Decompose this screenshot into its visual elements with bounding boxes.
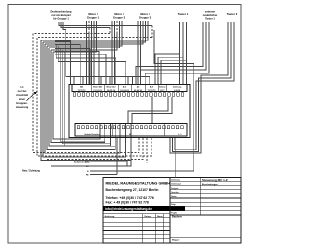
svg-text:Zeichnung: Zeichnung bbox=[171, 180, 180, 182]
svg-text:Taster 2: Taster 2 bbox=[227, 12, 238, 16]
wire motor1 b bbox=[88, 21, 90, 34]
wire mid col a bbox=[56, 44, 116, 85]
wire stair feed 2 bbox=[55, 45, 80, 85]
dashed wire option outer bbox=[33, 34, 139, 153]
svg-text:AB: AB bbox=[80, 85, 83, 88]
svg-text:info@riedel-raumgestaltung.de: info@riedel-raumgestaltung.de bbox=[105, 207, 152, 211]
wire netz hell bbox=[90, 161, 127, 166]
wire group bus 3 bbox=[45, 44, 120, 153]
wire link example 2 bbox=[61, 22, 110, 28]
svg-text:Gezeichn.: Gezeichn. bbox=[171, 192, 180, 194]
svg-text:L1: L1 bbox=[20, 85, 24, 89]
bottom strip dividers bbox=[112, 124, 114, 137]
wire motor3 d bbox=[43, 21, 146, 42]
terminal strip bottom box bbox=[75, 124, 187, 137]
svg-text:externer: externer bbox=[205, 10, 215, 14]
svg-text:zusätzlicher: zusätzlicher bbox=[203, 13, 218, 17]
svg-text:C1 C2 C3: C1 C2 C3 bbox=[93, 90, 101, 92]
svg-text:Buchenbergweg 27, 12107 Berli: Buchenbergweg 27, 12107 Berlin bbox=[106, 188, 159, 192]
wire group bus 5 bbox=[49, 48, 110, 146]
svg-text:Zuleitung: Zuleitung bbox=[173, 85, 182, 88]
wire motor1 c bbox=[91, 21, 93, 85]
wire taster2 b bbox=[173, 22, 232, 151]
wire internal 2 bbox=[128, 97, 168, 124]
wire motor2 e bbox=[47, 21, 122, 46]
svg-text:O1 O2 O3: O1 O2 O3 bbox=[120, 90, 129, 92]
note arrow bbox=[26, 92, 37, 101]
svg-text:M: M bbox=[129, 134, 131, 136]
wire motor3 c bbox=[45, 21, 143, 44]
svg-text:Festgest.: Festgest. bbox=[171, 187, 179, 190]
svg-text:hell: hell bbox=[85, 161, 89, 163]
controller block U1 bbox=[69, 85, 190, 138]
svg-text:Schalt-Verteiler: Schalt-Verteiler bbox=[84, 133, 99, 136]
dashed wire below block a bbox=[138, 138, 140, 153]
dashed wire option stub bbox=[109, 28, 111, 34]
wire mid col b bbox=[58, 46, 125, 84]
title email bar bbox=[103, 206, 185, 211]
wire taster2 c bbox=[175, 22, 234, 150]
revision col end bbox=[163, 214, 165, 243]
data table label col bbox=[199, 178, 201, 216]
svg-text:einer: einer bbox=[19, 97, 25, 101]
wire motor1 d bbox=[93, 21, 95, 85]
terminal squares top row bbox=[73, 93, 76, 96]
svg-text:Änderung: Änderung bbox=[105, 215, 116, 218]
svg-text:Anschluß: Anschluß bbox=[16, 93, 28, 97]
data table mappe row bbox=[170, 236, 241, 238]
wire group bus 4 bbox=[47, 46, 115, 150]
svg-text:Steuerung MC 1-Z: Steuerung MC 1-Z bbox=[202, 178, 228, 182]
wire ext-taster b bbox=[141, 22, 206, 85]
wire mid col e bbox=[64, 52, 115, 146]
drawing border frame bbox=[8, 5, 241, 244]
svg-text:Gruppe 1: Gruppe 1 bbox=[87, 16, 100, 20]
wire group bus 7 bbox=[53, 52, 100, 139]
wires short feed teeth bbox=[73, 76, 75, 84]
svg-text:T1 T2 T3: T1 T2 T3 bbox=[78, 90, 86, 92]
wire stair feed 4 bbox=[55, 52, 99, 85]
svg-text:Blatt: Blatt bbox=[171, 207, 175, 210]
svg-text:nur als Beispiel: nur als Beispiel bbox=[51, 13, 70, 17]
wire mid col 0 bbox=[55, 54, 106, 84]
svg-text:Schutz.: Schutz. bbox=[159, 85, 166, 88]
svg-text:PE: PE bbox=[86, 175, 89, 177]
wire link example 3 bbox=[63, 22, 150, 85]
wire block to bus bbox=[51, 138, 131, 166]
svg-text:L 1: L 1 bbox=[179, 134, 183, 136]
dashed wire below block c bbox=[146, 138, 148, 163]
revision col datum bbox=[141, 214, 143, 243]
svg-text:Gruppe 2: Gruppe 2 bbox=[113, 16, 126, 20]
svg-text:Name: Name bbox=[157, 216, 164, 218]
svg-text:Datum: Datum bbox=[145, 215, 152, 218]
svg-text:L1: L1 bbox=[86, 166, 89, 168]
wire motor2 b bbox=[114, 21, 116, 85]
wire taster1 b bbox=[182, 22, 184, 85]
wire ext-taster a bbox=[136, 22, 203, 85]
svg-text:N: N bbox=[87, 171, 89, 173]
svg-text:C4 C5 C6: C4 C5 C6 bbox=[107, 89, 115, 92]
svg-text:Netz / Zuleitung: Netz / Zuleitung bbox=[22, 170, 40, 173]
wire group bus 2 bbox=[43, 42, 126, 157]
wire netz PE bbox=[90, 174, 117, 176]
svg-text:Mappe:: Mappe: bbox=[172, 240, 180, 242]
svg-text:RIEDEL RAUMGESTALTUNG GMBH: RIEDEL RAUMGESTALTUNG GMBH bbox=[106, 182, 171, 186]
svg-text:Drahtverbindung: Drahtverbindung bbox=[51, 10, 72, 14]
wire mid col c bbox=[60, 48, 105, 141]
wire motor3 b bbox=[140, 21, 142, 85]
terminal squares bottom row bbox=[77, 126, 80, 129]
wire motor2 c bbox=[116, 21, 118, 34]
revision col name bbox=[155, 214, 157, 243]
svg-text:Gruppe 3: Gruppe 3 bbox=[139, 16, 152, 20]
wire mid col d bbox=[62, 50, 110, 144]
wire internal 3 bbox=[132, 97, 172, 124]
svg-text:U1 U2 U3: U1 U2 U3 bbox=[134, 90, 142, 92]
wire motor2 d bbox=[49, 21, 120, 48]
svg-text:Ab: Ab bbox=[137, 85, 140, 88]
wire motor3 a bbox=[137, 21, 139, 85]
svg-text:Taster 1: Taster 1 bbox=[178, 12, 189, 16]
svg-text:Taster 1: Taster 1 bbox=[205, 16, 215, 20]
wire stair feed 3 bbox=[55, 48, 90, 84]
dashed wire below block b bbox=[46, 138, 143, 160]
svg-text:L N PE: L N PE bbox=[174, 90, 181, 92]
title block frame bbox=[103, 178, 241, 244]
wire group bus 1 bbox=[41, 40, 131, 160]
svg-text:Fax: + 49 (0)30 / 747 92: Fax: + 49 (0)30 / 747 92 778 bbox=[106, 200, 149, 204]
svg-text:Auf: Auf bbox=[150, 85, 154, 88]
wire netz drop b bbox=[116, 138, 118, 175]
wire to title block bbox=[174, 150, 176, 178]
wire link example 1 bbox=[59, 22, 152, 26]
revision rows bbox=[103, 217, 170, 219]
svg-text:Motor Auf: Motor Auf bbox=[107, 85, 116, 88]
svg-text:nur bei: nur bei bbox=[18, 89, 27, 93]
wire motor3 e bbox=[41, 21, 148, 40]
svg-text:Auf: Auf bbox=[123, 85, 127, 88]
svg-text:Beschattungen: Beschattungen bbox=[202, 183, 218, 186]
wire ext-taster c bbox=[145, 22, 209, 85]
svg-text:für Gruppe 1: für Gruppe 1 bbox=[53, 17, 69, 21]
wire stair feed 1 bbox=[55, 41, 71, 85]
svg-text:Datum: Datum bbox=[171, 195, 177, 198]
terminal strip dividers bbox=[90, 85, 92, 92]
wire taster1 a bbox=[179, 22, 181, 85]
dashed wire option stub2 bbox=[151, 26, 153, 38]
svg-text:T1 T2 T3: T1 T2 T3 bbox=[148, 90, 156, 92]
wire internal 1 bbox=[151, 97, 153, 124]
revision table top bbox=[103, 213, 170, 215]
terminal strip header bbox=[72, 85, 187, 92]
svg-text:steuerung: steuerung bbox=[16, 105, 29, 109]
svg-text:Projekt: Projekt bbox=[171, 211, 177, 214]
wire group bus 6 bbox=[51, 50, 105, 142]
data table rows bbox=[170, 181, 241, 183]
wire taster1 c bbox=[186, 22, 188, 85]
wire motor2 a bbox=[111, 21, 113, 85]
wire taster2 a bbox=[170, 22, 228, 153]
svg-text:Motor AB: Motor AB bbox=[93, 85, 102, 88]
svg-text:Bauherr: Bauherr bbox=[172, 215, 182, 219]
wire motor1 a bbox=[86, 21, 88, 85]
svg-text:Gruppen-: Gruppen- bbox=[16, 101, 28, 105]
wire link g3 bridge bbox=[90, 30, 194, 171]
svg-text:Zeichnung 1: Zeichnung 1 bbox=[171, 184, 181, 186]
data table left edge bbox=[169, 178, 171, 244]
wire motor1 e bbox=[53, 21, 97, 52]
dashed wire option inner bbox=[37, 38, 152, 157]
svg-text:Folge: Folge bbox=[171, 204, 176, 206]
